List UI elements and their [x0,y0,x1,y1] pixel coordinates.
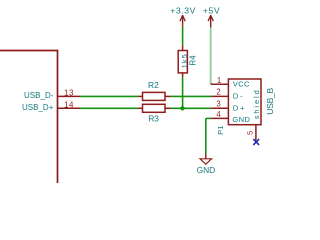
svg-text:+3.3V: +3.3V [170,5,196,15]
svg-text:5: 5 [246,131,255,135]
svg-text:shield: shield [252,88,261,119]
svg-text:R2: R2 [148,80,159,90]
svg-text:1: 1 [217,76,221,85]
svg-text:13: 13 [64,88,74,97]
svg-text:R4: R4 [189,55,198,66]
svg-text:P1: P1 [216,126,225,135]
svg-text:VCC: VCC [233,80,250,89]
svg-text:D-: D- [233,92,245,101]
svg-text:14: 14 [64,100,74,109]
svg-text:USB_D-: USB_D- [24,91,54,100]
svg-text:USB_B: USB_B [265,87,275,114]
svg-text:USB_D+: USB_D+ [22,103,54,112]
svg-text:2: 2 [216,88,220,97]
svg-text:1k5: 1k5 [180,53,189,68]
svg-text:D+: D+ [233,104,247,113]
svg-text:3: 3 [216,100,220,109]
svg-text:GND: GND [197,165,216,175]
svg-text:GND: GND [232,115,250,124]
svg-text:4: 4 [216,110,221,119]
svg-text:R3: R3 [148,113,159,123]
svg-text:+5V: +5V [203,5,220,15]
